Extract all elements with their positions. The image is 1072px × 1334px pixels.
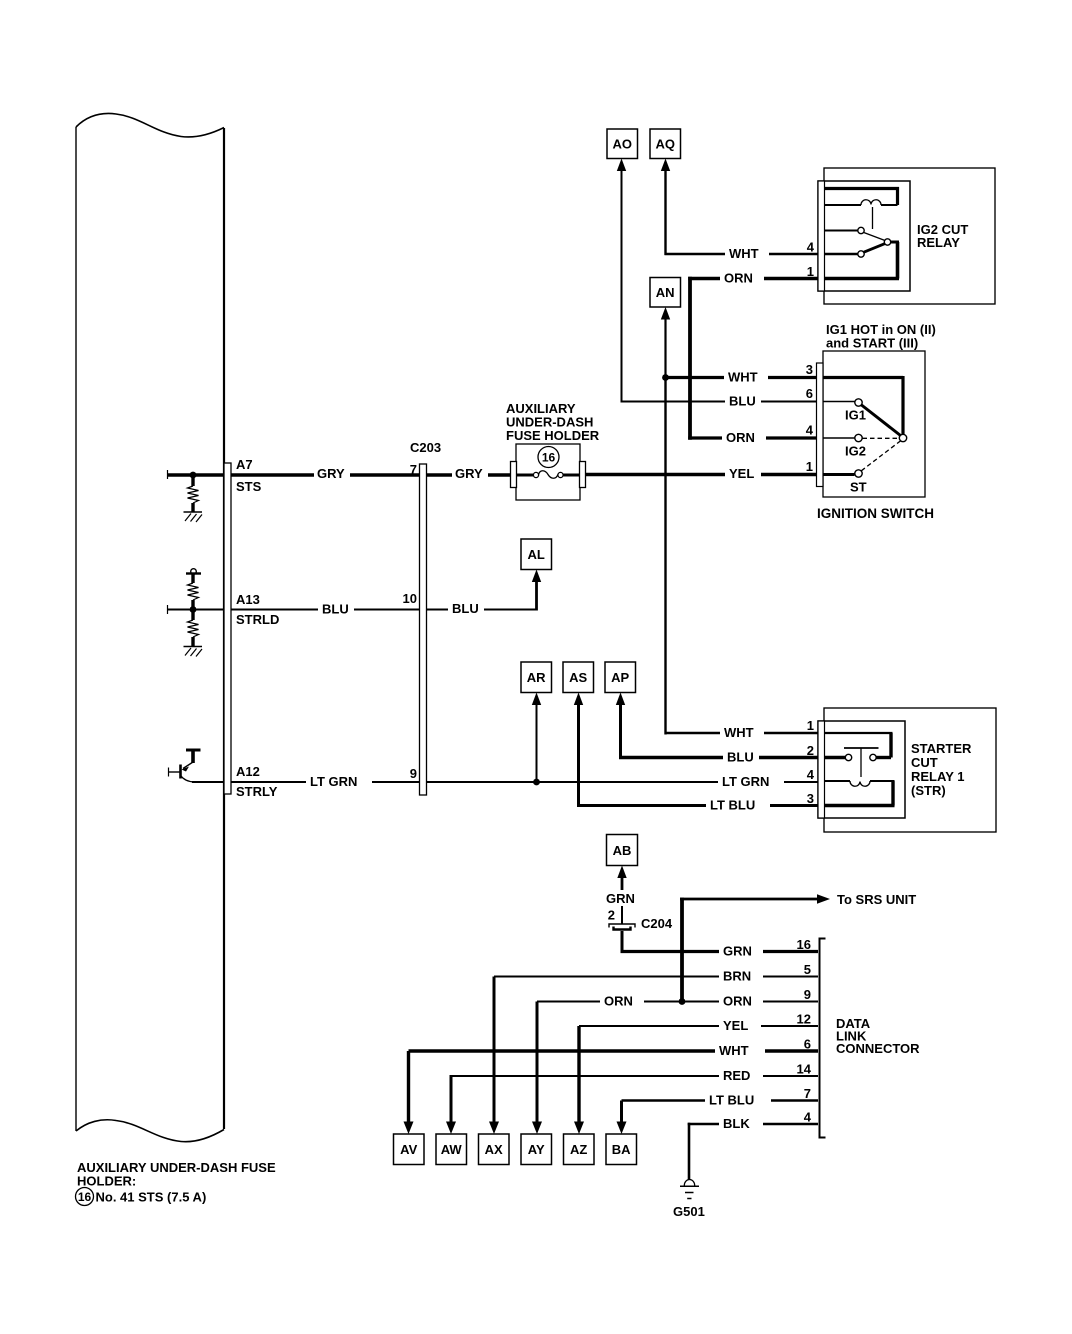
svg-text:LT GRN: LT GRN bbox=[310, 774, 357, 789]
svg-text:WHT: WHT bbox=[719, 1043, 749, 1058]
svg-text:AR: AR bbox=[527, 670, 546, 685]
label WHT bbox=[715, 1043, 765, 1058]
svg-text:AW: AW bbox=[441, 1142, 463, 1157]
svg-text:AP: AP bbox=[611, 670, 629, 685]
svg-text:1: 1 bbox=[806, 459, 813, 474]
node AZ bbox=[564, 1134, 595, 1165]
svg-text:BLU: BLU bbox=[322, 602, 349, 617]
wire A13 internal bbox=[167, 605, 225, 614]
svg-text:3: 3 bbox=[806, 362, 813, 377]
svg-text:12: 12 bbox=[797, 1012, 811, 1027]
svg-text:4: 4 bbox=[806, 423, 814, 438]
node AN bbox=[650, 278, 681, 308]
svg-text:BRN: BRN bbox=[723, 969, 751, 984]
label ORN (ignition) bbox=[722, 430, 766, 445]
svg-text:7: 7 bbox=[410, 462, 417, 477]
arrow into AN bbox=[661, 307, 670, 320]
wire to AV bbox=[407, 1051, 410, 1124]
wire stub AN to WHT junction bbox=[664, 319, 666, 378]
wire to BA bbox=[620, 1101, 623, 1125]
wire WHT long vertical from AN junction to starter cut relay pin 1 bbox=[665, 378, 819, 735]
wire A7 internal bbox=[167, 470, 225, 479]
svg-text:1: 1 bbox=[807, 264, 814, 279]
svg-text:RED: RED bbox=[723, 1068, 750, 1083]
svg-text:9: 9 bbox=[410, 766, 417, 781]
node junction WHT bbox=[662, 374, 669, 381]
svg-text:6: 6 bbox=[806, 386, 813, 401]
svg-text:16: 16 bbox=[78, 1190, 92, 1204]
node AV bbox=[394, 1134, 425, 1165]
wire to AR bbox=[536, 704, 538, 782]
svg-text:AX: AX bbox=[485, 1142, 503, 1157]
label ORN (right) bbox=[719, 994, 763, 1009]
label YEL bbox=[719, 1018, 761, 1033]
svg-text:STRLD: STRLD bbox=[236, 612, 279, 627]
svg-text:14: 14 bbox=[797, 1062, 812, 1077]
svg-text:CUT: CUT bbox=[911, 755, 938, 770]
label BLK bbox=[719, 1116, 763, 1131]
svg-text:AZ: AZ bbox=[570, 1142, 587, 1157]
node AO bbox=[607, 129, 638, 159]
svg-text:BLU: BLU bbox=[452, 601, 479, 616]
svg-text:4: 4 bbox=[804, 1110, 812, 1125]
label GRY bbox=[452, 466, 488, 481]
label BLU bbox=[318, 602, 354, 617]
svg-text:A12: A12 bbox=[236, 764, 260, 779]
svg-text:STS: STS bbox=[236, 479, 262, 494]
label LT GRN (right) bbox=[718, 774, 784, 789]
svg-text:IG2: IG2 bbox=[845, 444, 866, 459]
arrow into AZ bbox=[574, 1122, 584, 1135]
label BRN bbox=[719, 969, 763, 984]
svg-text:16: 16 bbox=[797, 937, 811, 952]
svg-text:AN: AN bbox=[656, 285, 675, 300]
svg-text:AL: AL bbox=[528, 547, 545, 562]
pin label A12 / STRLY bbox=[236, 764, 278, 799]
svg-text:C204: C204 bbox=[641, 916, 673, 931]
label BLU bbox=[723, 750, 759, 765]
svg-text:LT BLU: LT BLU bbox=[709, 1093, 754, 1108]
arrow into AR bbox=[532, 693, 541, 706]
wire BRN from AX to DLC pin 5 bbox=[494, 976, 818, 978]
svg-text:GRY: GRY bbox=[455, 466, 483, 481]
label YEL bbox=[725, 466, 761, 481]
svg-text:2: 2 bbox=[608, 908, 615, 923]
wire into C204 bbox=[621, 906, 623, 924]
svg-text:10: 10 bbox=[403, 591, 417, 606]
fuse F16 auxiliary under-dash fuse holder bbox=[511, 444, 586, 500]
svg-text:WHT: WHT bbox=[729, 246, 759, 261]
wire to AZ bbox=[577, 1026, 580, 1124]
wire WHT from AV to DLC pin 6 bbox=[409, 1049, 819, 1052]
arrow into AX bbox=[489, 1122, 499, 1135]
label AUXILIARY UNDER-DASH FUSE HOLDER bbox=[506, 401, 600, 443]
label DATA LINK CONNECTOR bbox=[836, 1016, 920, 1056]
arrow into AL bbox=[532, 570, 541, 583]
wire ORN from IG2 relay pin 1 to ignition switch pin 4 bbox=[688, 277, 818, 440]
arrow into AW bbox=[446, 1122, 456, 1135]
arrow into BA bbox=[617, 1122, 627, 1135]
label IG2 CUT RELAY bbox=[917, 222, 968, 250]
wire RED from AW to DLC pin 14 bbox=[450, 1075, 819, 1077]
node junction ORN bbox=[679, 998, 686, 1005]
resistor to ground at A7 bbox=[188, 475, 199, 512]
label ORN (IG2 relay) bbox=[720, 271, 764, 286]
arrow into AP bbox=[616, 693, 625, 706]
connector C204 bbox=[609, 924, 635, 930]
wire YEL from AZ to DLC pin 12 bbox=[579, 1025, 818, 1027]
svg-text:G501: G501 bbox=[673, 1204, 705, 1219]
label GRN (DLC) bbox=[719, 944, 763, 959]
svg-text:STRLY: STRLY bbox=[236, 784, 278, 799]
arrow into AY bbox=[532, 1122, 542, 1135]
wire GRN from C204 to DLC pin 16 bbox=[621, 931, 819, 953]
ground symbol under A7 resistor bbox=[184, 512, 203, 522]
wire to AW bbox=[450, 1076, 453, 1124]
node AY bbox=[521, 1134, 552, 1165]
label LT BLU bbox=[706, 798, 770, 813]
arrow into AS bbox=[574, 693, 583, 706]
label LT BLU bbox=[705, 1093, 771, 1108]
pull-down resistor below A13 bbox=[188, 610, 199, 647]
svg-text:GRN: GRN bbox=[606, 891, 635, 906]
label ORN (left) bbox=[600, 994, 644, 1009]
label WHT (ignition) bbox=[724, 370, 768, 385]
svg-text:AQ: AQ bbox=[655, 137, 675, 152]
label RED bbox=[719, 1068, 763, 1083]
wire LT GRN from A12 to C203 bbox=[231, 781, 419, 783]
svg-text:IG1: IG1 bbox=[845, 408, 866, 423]
label WHT (IG2 relay) bbox=[725, 246, 769, 261]
svg-text:4: 4 bbox=[807, 767, 815, 782]
svg-text:BA: BA bbox=[612, 1142, 631, 1157]
svg-text:STARTER: STARTER bbox=[911, 741, 972, 756]
node AR bbox=[521, 662, 552, 693]
svg-text:YEL: YEL bbox=[723, 1018, 748, 1033]
svg-text:CONNECTOR: CONNECTOR bbox=[836, 1041, 920, 1056]
note AUXILIARY UNDER-DASH FUSE HOLDER legend bbox=[77, 1160, 276, 1189]
wire to AX bbox=[493, 977, 496, 1125]
svg-text:7: 7 bbox=[804, 1086, 811, 1101]
svg-text:FUSE HOLDER: FUSE HOLDER bbox=[506, 428, 600, 443]
svg-text:BLU: BLU bbox=[729, 394, 756, 409]
svg-text:To SRS UNIT: To SRS UNIT bbox=[837, 892, 916, 907]
wire WHT from IG2 relay pin 4 up to AQ bbox=[665, 170, 819, 255]
svg-text:A13: A13 bbox=[236, 592, 260, 607]
wire ORN branch to SRS bbox=[680, 898, 819, 1002]
transistor Q (driver) at A12 bbox=[168, 750, 201, 782]
svg-text:A7: A7 bbox=[236, 457, 253, 472]
wire GRY from A7 to C203 bbox=[231, 473, 419, 477]
wire A12 internal bbox=[192, 781, 225, 783]
arrow into AB bbox=[617, 866, 626, 879]
node AS bbox=[563, 662, 594, 693]
svg-text:AY: AY bbox=[528, 1142, 545, 1157]
svg-text:AS: AS bbox=[569, 670, 587, 685]
arrow into AV bbox=[404, 1122, 414, 1135]
node AB bbox=[607, 835, 638, 866]
label LT GRN (left) bbox=[306, 774, 372, 789]
pin label A13 / STRLD bbox=[236, 592, 279, 627]
node AQ bbox=[650, 129, 681, 159]
svg-text:AO: AO bbox=[612, 137, 632, 152]
svg-text:LT BLU: LT BLU bbox=[710, 798, 755, 813]
svg-text:4: 4 bbox=[807, 240, 815, 255]
node AP bbox=[605, 662, 636, 693]
svg-text:GRY: GRY bbox=[317, 466, 345, 481]
svg-text:BLK: BLK bbox=[723, 1116, 750, 1131]
wire BLU from ignition switch pin 6 up to AO bbox=[621, 170, 818, 403]
svg-text:BLU: BLU bbox=[727, 750, 754, 765]
svg-text:2: 2 bbox=[807, 743, 814, 758]
svg-text:(STR): (STR) bbox=[911, 783, 946, 798]
node junction on A7 wire bbox=[190, 472, 197, 479]
node AL bbox=[521, 539, 552, 570]
connector pins on ECU edge bbox=[224, 463, 231, 794]
svg-text:C203: C203 bbox=[410, 440, 441, 455]
wire BLK from G501 to DLC pin 4 bbox=[688, 1123, 818, 1180]
value label 16 No. 41 STS (7.5 A) bbox=[76, 1188, 207, 1206]
label IG1 HOT in ON (II) and START (III) bbox=[826, 322, 936, 351]
svg-text:16: 16 bbox=[542, 451, 556, 465]
wire YEL from fuse to ignition switch pin 1 bbox=[586, 473, 817, 477]
node AW bbox=[436, 1134, 467, 1165]
svg-text:ORN: ORN bbox=[723, 994, 752, 1009]
label STARTER CUT RELAY 1 (STR) bbox=[911, 741, 972, 798]
node BA bbox=[606, 1134, 637, 1165]
node AX bbox=[479, 1134, 510, 1165]
label BLU (ignition) bbox=[725, 394, 761, 409]
svg-text:ORN: ORN bbox=[726, 430, 755, 445]
svg-text:3: 3 bbox=[807, 791, 814, 806]
svg-text:and START (III): and START (III) bbox=[826, 336, 918, 351]
relay U1 IG2 CUT RELAY bbox=[818, 168, 995, 304]
wire to AY bbox=[536, 1002, 539, 1125]
relay K1 STARTER CUT RELAY 1 bbox=[818, 708, 996, 832]
svg-text:HOLDER:: HOLDER: bbox=[77, 1174, 136, 1189]
label WHT (starter relay) bbox=[720, 725, 764, 740]
wire ORN from AY to DLC pin 9 bbox=[537, 1001, 818, 1003]
svg-text:1: 1 bbox=[807, 718, 814, 733]
component box: torn ECU outline left bbox=[76, 114, 224, 1142]
wire WHT to ignition switch pin 3 bbox=[666, 376, 818, 379]
label BLU bbox=[448, 601, 484, 616]
node junction on A13 wire bbox=[190, 606, 197, 613]
wire GRY from C203 to fuse bbox=[427, 473, 513, 477]
node junction AR tap bbox=[533, 779, 540, 786]
wire LT BLU from BA to DLC pin 7 bbox=[622, 1099, 819, 1101]
svg-text:9: 9 bbox=[804, 987, 811, 1002]
svg-text:6: 6 bbox=[804, 1037, 811, 1052]
svg-text:LT GRN: LT GRN bbox=[722, 774, 769, 789]
svg-text:RELAY: RELAY bbox=[917, 235, 960, 250]
arrow into AO bbox=[617, 159, 626, 172]
arrow into AQ bbox=[661, 159, 670, 172]
svg-text:AV: AV bbox=[400, 1142, 417, 1157]
wire LT GRN from C203 to starter cut relay pin 4 bbox=[427, 781, 819, 783]
svg-text:ORN: ORN bbox=[724, 271, 753, 286]
label GRY bbox=[314, 466, 350, 481]
wire BLU from C203 pin10 to AL bbox=[427, 581, 538, 611]
connector C203 bbox=[420, 464, 427, 795]
svg-text:AB: AB bbox=[613, 843, 632, 858]
wire GRN stub AB to C204 bbox=[621, 877, 624, 890]
wire BLU from A13 to C203 bbox=[231, 609, 419, 611]
svg-text:No. 41 STS (7.5 A): No. 41 STS (7.5 A) bbox=[96, 1190, 207, 1205]
svg-text:WHT: WHT bbox=[724, 725, 754, 740]
svg-text:WHT: WHT bbox=[728, 370, 758, 385]
arrow to SRS bbox=[817, 894, 830, 904]
switch S1 IGNITION SWITCH bbox=[817, 351, 926, 497]
ground symbol under A13 resistor bbox=[184, 647, 203, 657]
svg-text:5: 5 bbox=[804, 962, 811, 977]
connector DATA LINK CONNECTOR bracket bbox=[820, 939, 826, 1138]
svg-text:ST: ST bbox=[850, 480, 867, 495]
svg-text:ORN: ORN bbox=[604, 994, 633, 1009]
pin label A7 / STS bbox=[236, 457, 262, 494]
svg-text:RELAY 1: RELAY 1 bbox=[911, 769, 964, 784]
wire BLU from starter cut relay pin 2 to AP bbox=[619, 704, 818, 759]
pull-up resistor above A13 bbox=[186, 569, 201, 610]
wire LT BLU from starter cut relay pin 3 to AS bbox=[577, 704, 818, 807]
svg-text:GRN: GRN bbox=[723, 944, 752, 959]
svg-text:YEL: YEL bbox=[729, 466, 754, 481]
svg-text:IGNITION SWITCH: IGNITION SWITCH bbox=[817, 506, 934, 521]
ground G501 bbox=[680, 1180, 699, 1199]
